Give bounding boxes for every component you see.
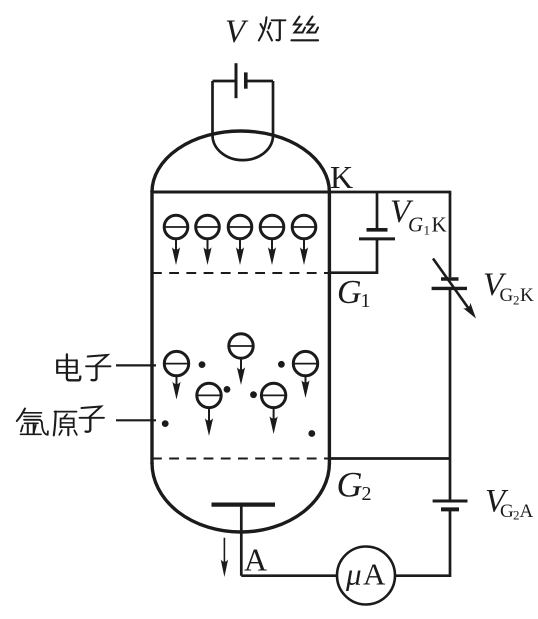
microammeter circle bbox=[337, 547, 395, 605]
wire anode to microammeter bbox=[241, 574, 337, 577]
node K label bbox=[330, 159, 353, 195]
hanzi yuan (argon char 2) bbox=[54, 412, 77, 436]
grid G2 label bbox=[337, 465, 372, 506]
svg-text:G: G bbox=[337, 274, 362, 311]
label V filament bbox=[225, 14, 249, 50]
cathode K plate line bbox=[152, 191, 329, 194]
svg-text:1: 1 bbox=[424, 223, 431, 238]
electron e1 bbox=[164, 215, 188, 265]
grid G1 dashed line bbox=[152, 272, 329, 274]
electron m3 bbox=[197, 383, 221, 436]
hanzi si (filament) bbox=[292, 17, 319, 41]
current direction arrow at A bbox=[221, 538, 228, 577]
svg-text:1: 1 bbox=[361, 290, 371, 312]
svg-text:G: G bbox=[500, 285, 514, 306]
label V_G2K bbox=[483, 267, 534, 308]
electron e5 bbox=[292, 215, 316, 265]
argon atom dot a2 bbox=[224, 386, 231, 393]
svg-text:A: A bbox=[244, 542, 267, 578]
electron m5 bbox=[293, 351, 317, 398]
svg-text:K: K bbox=[330, 159, 353, 195]
battery V_G1K long plate bbox=[359, 237, 395, 240]
svg-text:K: K bbox=[520, 285, 534, 306]
node A label bbox=[244, 542, 267, 578]
battery V filament long plate bbox=[235, 63, 238, 98]
battery V filament short plate bbox=[244, 72, 248, 88]
battery V_G2A short plate bbox=[441, 507, 459, 511]
hanzi dian (electron label char 1) bbox=[57, 354, 80, 380]
right rail lower segment bbox=[396, 509, 451, 575]
svg-text:K: K bbox=[432, 213, 447, 237]
electron e3 bbox=[228, 215, 252, 265]
svg-text:G: G bbox=[408, 213, 423, 237]
svg-text:2: 2 bbox=[513, 293, 520, 308]
filament stem right lead bbox=[272, 81, 275, 137]
tube envelope left wall bbox=[150, 190, 153, 464]
argon atom dot a4 bbox=[278, 361, 285, 368]
argon atom dot a5 bbox=[162, 420, 169, 427]
battery V_G2A long plate bbox=[433, 500, 468, 503]
microammeter label uA bbox=[345, 557, 386, 592]
svg-text:G: G bbox=[337, 465, 363, 505]
svg-text:2: 2 bbox=[362, 483, 372, 505]
svg-text:μ: μ bbox=[345, 557, 362, 592]
svg-text:A: A bbox=[363, 557, 386, 592]
svg-text:V: V bbox=[225, 14, 249, 50]
label pointer line dianzi bbox=[116, 364, 156, 366]
right rail upper segment bbox=[449, 191, 452, 278]
battery V_G2K variable arrow bbox=[433, 259, 476, 319]
electron m1 bbox=[164, 351, 188, 399]
electron m4 bbox=[261, 383, 285, 434]
wire filament battery left bbox=[213, 80, 235, 83]
svg-text:G: G bbox=[500, 501, 514, 522]
battery V_G2K short plate bbox=[441, 277, 459, 280]
argon atom dot a1 bbox=[199, 361, 206, 368]
tube envelope top dome bbox=[152, 131, 329, 192]
argon atom dot a3 bbox=[250, 391, 257, 398]
tube envelope right wall bbox=[328, 190, 331, 464]
wire K to right rail bbox=[329, 191, 450, 194]
svg-text:A: A bbox=[520, 501, 534, 522]
wire G2 to right rail bbox=[329, 457, 450, 460]
wire V_G1K to G1 bbox=[329, 239, 377, 273]
wire V_G1K branch down bbox=[376, 192, 379, 228]
filament cup arc bbox=[213, 136, 274, 160]
electron e2 bbox=[196, 215, 220, 265]
battery V_G2K long plate bbox=[432, 287, 467, 290]
label pointer line yayuanzi bbox=[116, 419, 156, 421]
label V_G1K bbox=[390, 194, 447, 238]
electron row symbols (top, 5 electrons with arrows) bbox=[164, 215, 316, 265]
wire filament battery right bbox=[246, 80, 273, 83]
hanzi zi (argon char 3) bbox=[80, 407, 105, 432]
grid G2 dashed line bbox=[152, 458, 329, 460]
label V_G2A bbox=[485, 484, 534, 523]
anode A plate bbox=[212, 503, 276, 507]
electron e4 bbox=[260, 215, 284, 265]
tube envelope bottom dome bbox=[152, 463, 329, 532]
hanzi ya (argon char 1) bbox=[17, 409, 48, 435]
battery V_G1K short plate bbox=[367, 228, 388, 232]
wire anode stem bbox=[240, 505, 243, 576]
argon atom dot a6 bbox=[308, 430, 315, 437]
right rail middle segment bbox=[449, 288, 452, 499]
electron m2 bbox=[229, 334, 253, 385]
grid G1 label bbox=[337, 274, 371, 312]
hanzi deng (lamp) bbox=[259, 17, 286, 40]
filament stem left lead bbox=[211, 81, 214, 136]
hanzi zi (electron label char 2) bbox=[86, 355, 111, 380]
